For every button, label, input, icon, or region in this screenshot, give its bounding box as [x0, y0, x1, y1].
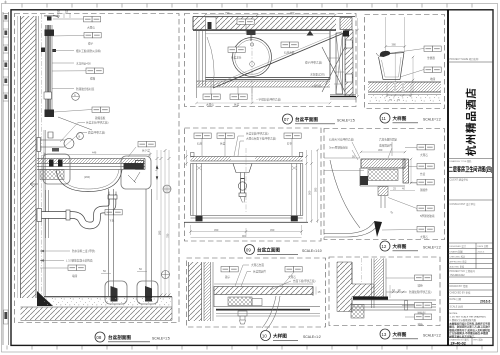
top labels [194, 133, 211, 138]
svg-text:台盆龙头(甲供乙装): 台盆龙头(甲供乙装) [86, 121, 109, 125]
floor lines [353, 300, 436, 310]
svg-text:墙砖: 墙砖 [418, 284, 424, 288]
left wall face line [17, 16, 19, 298]
left revision strip [3, 12, 9, 345]
svg-text:SCALE=1:2: SCALE=1:2 [423, 118, 441, 122]
title 08 [95, 332, 170, 342]
title 12 [380, 241, 441, 251]
toilet body [380, 51, 391, 57]
counter hatched band [214, 283, 313, 285]
cabinet body [191, 164, 303, 216]
title 10 [261, 331, 321, 341]
svg-text:成品固定件: 成品固定件 [379, 144, 392, 148]
right floor dark line [330, 96, 356, 98]
faucet [37, 138, 41, 152]
svg-text:12: 12 [381, 244, 386, 249]
basin + trap [233, 164, 252, 173]
centerline dash-dot [41, 14, 43, 298]
svg-text:585: 585 [158, 230, 162, 235]
top wall band [193, 17, 336, 30]
bottom dim line [197, 102, 331, 104]
counter outline [206, 31, 331, 80]
top corner mark [4, 1, 7, 4]
svg-text:杭州精品酒店: 杭州精品酒店 [465, 87, 478, 156]
section line triangle [307, 31, 314, 36]
concrete wall hatch [21, 16, 37, 298]
svg-text:3mm厚钢板连接: 3mm厚钢板连接 [329, 146, 348, 150]
svg-text:台盆平面图: 台盆平面图 [295, 116, 318, 123]
drain [238, 311, 247, 316]
svg-text:PROJECT NAME 项目名称: PROJECT NAME 项目名称 [450, 57, 480, 61]
svg-text:台盆龙头: 台盆龙头 [231, 56, 242, 60]
svg-text:2F-40-02: 2F-40-02 [451, 342, 466, 346]
svg-text:二层客房卫生间详图(四): 二层客房卫生间详图(四) [449, 165, 493, 173]
svg-text:2016.6: 2016.6 [478, 252, 485, 254]
svg-text:CLIENT 建设单位: CLIENT 建设单位 [450, 178, 469, 182]
black base band [353, 297, 388, 300]
svg-text:DRAWN BY 绘图: DRAWN BY 绘图 [450, 284, 469, 288]
svg-text:11: 11 [381, 116, 386, 121]
supply riser [46, 190, 49, 238]
svg-text:台盆: 台盆 [220, 142, 226, 146]
trap label [105, 210, 122, 215]
axis circles [163, 185, 171, 193]
shelf lines [216, 314, 320, 317]
svg-text:一字镜安装(甲供乙装): 一字镜安装(甲供乙装) [256, 98, 281, 102]
dark L bracket [360, 176, 368, 185]
labels right [424, 46, 441, 51]
svg-text:台盆立面图: 台盆立面图 [257, 247, 280, 254]
sub blocking [228, 297, 252, 306]
svg-text:B: B [79, 134, 81, 138]
mirror bottom clip [45, 110, 55, 118]
svg-text:750: 750 [225, 11, 230, 15]
drain + P-trap [109, 192, 116, 197]
mirror panel section [47, 25, 51, 115]
svg-text:大样图: 大样图 [393, 243, 407, 250]
blocking [368, 170, 398, 181]
svg-text:446: 446 [92, 151, 97, 155]
basin circle [233, 38, 272, 77]
svg-text:大理石台面下挂(甲供乙装): 大理石台面下挂(甲供乙装) [246, 137, 276, 141]
svg-text:台下盆: 台下盆 [142, 149, 150, 153]
right wall corner blocks [340, 18, 352, 30]
rounded callout left [43, 154, 70, 184]
title 07 [283, 114, 355, 124]
svg-text:SCALE=1:5: SCALE=1:5 [337, 119, 355, 123]
svg-text:钢挂件: 钢挂件 [420, 188, 428, 192]
counter slab [191, 157, 232, 162]
right vertical dims [157, 150, 169, 297]
svg-text:墙砖: 墙砖 [72, 274, 78, 278]
svg-text:大理石: 大理石 [420, 153, 428, 157]
svg-text:07: 07 [284, 117, 289, 122]
svg-text:镜子: 镜子 [225, 275, 231, 279]
basin bowl [56, 170, 122, 192]
svg-text:SCALE 比例: SCALE 比例 [450, 305, 464, 309]
svg-text:石材台下挂(甲供乙装): 石材台下挂(甲供乙装) [329, 138, 354, 142]
svg-text:经签字确认后方可施工。: 经签字确认后方可施工。 [449, 334, 477, 338]
big wall hatch L-shape [337, 262, 374, 312]
svg-text:坐便器: 坐便器 [427, 56, 435, 60]
door leaf diagonal + swing [213, 33, 344, 88]
door jamb gap in top band [206, 17, 217, 30]
svg-text:大理石: 大理石 [288, 275, 296, 279]
svg-text:300: 300 [378, 148, 383, 152]
label pair top right [138, 142, 155, 147]
svg-text:大样图: 大样图 [273, 333, 287, 340]
svg-text:09: 09 [246, 247, 251, 252]
sub dims [387, 84, 411, 97]
svg-text:大样图: 大样图 [393, 115, 407, 122]
bottom labels [203, 94, 220, 99]
anchor black square right [343, 31, 349, 37]
svg-text:大样图: 大样图 [393, 331, 407, 338]
svg-text:镜子: 镜子 [88, 42, 94, 46]
svg-text:镜箱: 镜箱 [90, 77, 96, 81]
svg-text:地砖: 地砖 [430, 77, 436, 81]
svg-text:SCALE=1:5: SCALE=1:5 [152, 337, 170, 341]
svg-text:5厚钢化玻璃: 5厚钢化玻璃 [420, 214, 435, 218]
mirror cabinet right [336, 33, 343, 94]
right label column [417, 145, 434, 150]
right small dim [412, 57, 414, 93]
svg-text:450: 450 [214, 228, 219, 232]
svg-text:HZ-2016-012: HZ-2016-012 [451, 274, 466, 277]
svg-text:防水涂料二度 (甲供): 防水涂料二度 (甲供) [72, 249, 95, 253]
svg-text:防潮处理(甲供乙装): 防潮处理(甲供乙装) [409, 290, 432, 294]
svg-text:镜箱底板: 镜箱底板 [95, 116, 106, 120]
top tick strip [22, 4, 472, 8]
svg-text:380: 380 [392, 43, 397, 47]
svg-text:木龙骨@400: 木龙骨@400 [76, 62, 91, 66]
446 dim above counter [44, 152, 150, 157]
floor [37, 291, 53, 306]
title 11 [380, 113, 441, 123]
svg-text:585: 585 [314, 187, 318, 192]
bottom tick strip [7, 346, 482, 350]
svg-text:L 3.5钢筋混凝土结构墙: L 3.5钢筋混凝土结构墙 [66, 259, 93, 263]
svg-text:A: A [74, 93, 76, 97]
rounded callout right [121, 156, 151, 189]
svg-text:防潮胶合板衬底: 防潮胶合板衬底 [76, 87, 95, 91]
svg-text:SCALE=1:10: SCALE=1:10 [302, 249, 322, 253]
blocking under counter [40, 170, 64, 180]
svg-text:细木工板(刷防火涂料): 细木工板(刷防火涂料) [76, 49, 101, 53]
crosshatch block [351, 305, 364, 319]
counter top slab [37, 159, 145, 164]
top labels [221, 267, 238, 272]
svg-text:台盆: 台盆 [420, 172, 426, 176]
svg-text:六角头螺栓固定: 六角头螺栓固定 [379, 138, 398, 142]
drip edge [403, 159, 409, 183]
wall hatch [189, 262, 202, 321]
labels inside plan [228, 47, 245, 52]
viewport border [15, 14, 180, 323]
svg-text:2016.6: 2016.6 [480, 300, 490, 304]
tile column [374, 259, 384, 297]
small dims [390, 285, 406, 298]
svg-text:1. DO NOT SCALE THE DRAWINGS.: 1. DO NOT SCALE THE DRAWINGS. [450, 316, 487, 319]
svg-text:NOTES:: NOTES: [450, 313, 459, 315]
svg-text:镜子(甲供乙装): 镜子(甲供乙装) [305, 61, 322, 65]
svg-text:CHECKED BY 审核: CHECKED BY 审核 [450, 291, 472, 295]
sweep curves [330, 160, 360, 228]
title 13 [380, 329, 441, 339]
svg-text:石材台面: 石材台面 [284, 51, 295, 55]
floor hatch band [368, 82, 441, 92]
detail circle A [72, 93, 80, 101]
svg-text:面盆(甲供乙装): 面盆(甲供乙装) [88, 131, 105, 135]
labels right of mirror [84, 17, 101, 22]
svg-text:08: 08 [96, 335, 101, 340]
svg-text:大理石台面: 大理石台面 [251, 263, 264, 267]
extension lines from top [386, 17, 405, 85]
svg-text:灯带: 灯带 [287, 142, 293, 146]
svg-text:560: 560 [308, 190, 312, 195]
counter slab hatched [361, 159, 405, 168]
svg-text:450: 450 [270, 228, 275, 232]
leg callout bubbles [105, 281, 127, 304]
label under mirror [92, 107, 109, 112]
svg-text:750: 750 [290, 11, 295, 15]
svg-text:大理石: 大理石 [87, 26, 95, 30]
big arrow triangle [374, 221, 382, 237]
context lines left [324, 158, 364, 171]
dim right [315, 287, 317, 295]
stud column [204, 262, 211, 321]
cabinet legs [109, 189, 114, 296]
mirror top clip [45, 30, 55, 37]
svg-text:石材: 石材 [197, 142, 203, 146]
top tiny dims [205, 14, 335, 16]
svg-text:台盆安装(甲供乙装): 台盆安装(甲供乙装) [246, 132, 269, 136]
left dim [186, 150, 188, 166]
svg-text:台盆固定件: 台盆固定件 [253, 270, 266, 274]
tile layer line [38, 16, 40, 296]
detail circle B [77, 133, 84, 140]
right dim [357, 18, 359, 96]
dims [361, 151, 405, 153]
glass piece [378, 187, 388, 196]
svg-text:大理石: 大理石 [420, 235, 428, 239]
svg-text:SCALE=1:2: SCALE=1:2 [303, 335, 321, 339]
svg-text:台面下挂(甲供乙装): 台面下挂(甲供乙装) [293, 279, 316, 283]
svg-text:SCALE=1:2: SCALE=1:2 [423, 246, 441, 250]
title 09 [245, 245, 322, 255]
feet [196, 216, 203, 222]
stipple band [368, 95, 441, 104]
labels right [415, 275, 432, 280]
floor line [184, 221, 308, 223]
svg-text:CONSULTANT 设计单位: CONSULTANT 设计单位 [450, 202, 477, 206]
svg-text:台盆剖面图: 台盆剖面图 [108, 334, 131, 341]
left tile wall edge [197, 30, 206, 98]
svg-text:900: 900 [242, 234, 247, 238]
svg-text:SCALE=1:2: SCALE=1:2 [423, 334, 441, 338]
right dims [307, 150, 318, 223]
svg-text:780: 780 [166, 233, 170, 238]
svg-text:10: 10 [262, 333, 267, 338]
centerline [361, 258, 363, 284]
sweep curve [262, 296, 276, 328]
svg-text:DATE 日期: DATE 日期 [450, 297, 462, 301]
svg-text:PROJECT NO 工程编号: PROJECT NO 工程编号 [450, 269, 476, 273]
svg-text:木饰面(乙供): 木饰面(乙供) [310, 73, 325, 77]
svg-text:(290): (290) [84, 175, 90, 179]
bottom hatched strip [197, 81, 331, 87]
svg-text:地砖: 地砖 [418, 323, 424, 327]
bottom dims [191, 225, 302, 235]
faucet plan [247, 31, 256, 36]
top small dims [44, 13, 70, 18]
svg-text:13: 13 [381, 332, 386, 337]
